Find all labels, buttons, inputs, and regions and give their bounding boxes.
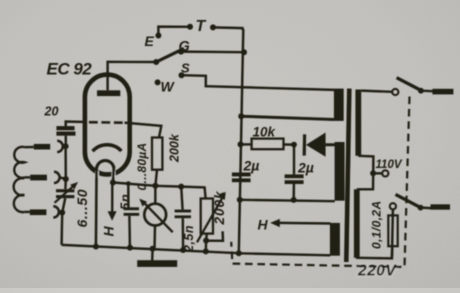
wire tap rail upper: [64, 146, 67, 179]
coil middle tap wire: [25, 176, 31, 178]
wire C-25n top lead: [181, 187, 182, 210]
node bus-pot: [203, 248, 209, 254]
triode anode lead: [108, 62, 155, 90]
meter M1 body: [144, 204, 166, 226]
resistor R1 200k: [152, 138, 162, 170]
fuse F1 body: [388, 215, 397, 246]
transformer winding W4 lower: [354, 189, 360, 257]
capacitor C 20pF: [56, 126, 74, 130]
coil bottom tap plug: [30, 209, 47, 215]
wire grid to R-200k: [125, 123, 162, 138]
node C-25n tap: [178, 184, 184, 190]
node cathode junction: [110, 180, 116, 186]
coil middle tap plug: [30, 175, 47, 181]
node bus-5n: [127, 245, 133, 251]
heater white casing: [95, 171, 99, 178]
wire R1 to node: [155, 170, 157, 186]
heater leg left: [95, 166, 98, 246]
coil bottom tap socket: [53, 206, 59, 217]
switch arm mains upper: [397, 78, 421, 91]
switch arm G: [156, 48, 184, 62]
wire R2 bottom lead: [205, 234, 208, 241]
heater leg right: [113, 166, 114, 182]
transformer core: [346, 89, 349, 262]
triode V1 EC92 envelope: [85, 75, 130, 175]
wire 110V tap lead: [373, 172, 382, 175]
wire T to rail: [213, 27, 243, 30]
node bus-meter: [150, 246, 156, 252]
dashed enclosure: [231, 97, 409, 267]
wire heater feed: [279, 222, 330, 225]
node middle tap: [63, 176, 69, 182]
wire mains top lead: [361, 91, 392, 92]
wire HT rail: [239, 29, 244, 253]
wire C2u-2 top lead: [293, 145, 295, 175]
coil top tap wire: [25, 146, 34, 149]
wire C-5n bottom lead: [128, 216, 131, 248]
node bus-heater: [93, 244, 99, 250]
node rail-10k: [238, 141, 244, 147]
wire E to T: [158, 27, 190, 36]
node meter top: [152, 183, 158, 189]
arrow heater down: [111, 183, 114, 213]
contact S: [179, 72, 185, 78]
node pivot lower: [418, 205, 424, 211]
node diode junction: [291, 142, 297, 148]
wire C-5n top lead: [127, 184, 130, 208]
coil middle tap socket: [54, 172, 60, 183]
wire meter bottom lead: [153, 226, 156, 249]
node bottom tap: [59, 210, 65, 216]
triode anode plate: [97, 90, 120, 96]
wire S to transformer: [182, 75, 335, 90]
contact E: [155, 33, 161, 39]
diode D1 cathode bar: [303, 134, 307, 155]
transformer winding W2 (rectifier): [335, 142, 345, 201]
node R2 bottom: [203, 238, 209, 244]
contact T right: [210, 24, 216, 30]
node top tap: [63, 143, 69, 149]
wire R2 to bus: [205, 241, 208, 252]
node rail-winding: [238, 113, 244, 119]
wire G to rail: [181, 50, 244, 53]
transformer winding W3 (heater): [330, 223, 340, 256]
resistor R3 10k: [252, 139, 284, 150]
node C2u-2 ground: [291, 197, 297, 203]
contact T left: [187, 24, 193, 30]
plug pin lower: [431, 204, 451, 209]
node rail-G: [241, 49, 247, 55]
terminal 110V: [382, 170, 388, 176]
potentiometer R2 200k body: [201, 199, 213, 234]
diode D1: [306, 133, 326, 157]
wire mains bottom lead: [356, 246, 392, 258]
node rail-ground wire: [237, 197, 243, 203]
capacitor C 2,5n: [175, 210, 191, 213]
wire C-var to bottom tap: [62, 198, 65, 212]
coil top tap plug: [34, 144, 50, 150]
wire pivot to pin lower: [421, 206, 432, 209]
plug pin upper: [432, 89, 453, 95]
contact G: [178, 49, 184, 55]
wire ground return: [240, 200, 335, 201]
triode grid (dashed): [89, 121, 126, 124]
wire tap rail to C-var: [64, 179, 67, 189]
node 110V tap: [370, 170, 376, 176]
wire 110V tap step: [357, 156, 374, 190]
triode heater loop: [97, 161, 114, 169]
terminal fuse top: [390, 203, 396, 209]
meter M1 arrow: [143, 202, 173, 233]
capacitor C 2u second: [285, 174, 304, 178]
wire C2u-2 bottom lead: [292, 184, 295, 200]
switch arm mains lower: [396, 194, 421, 207]
node bus-25n: [180, 247, 186, 253]
wire 10k to diode: [284, 143, 295, 146]
transformer winding W4 upper (mains): [355, 90, 361, 156]
wire R2 wiper hook: [206, 231, 223, 241]
coil top tap socket: [57, 141, 63, 152]
node switch pivot: [153, 59, 159, 65]
triode cathode: [93, 145, 122, 151]
coil bottom tap wire: [24, 211, 30, 213]
transformer winding W1 (HT): [334, 89, 344, 121]
contact W: [155, 79, 161, 85]
wire diode to winding: [326, 143, 335, 146]
node pivot upper: [418, 88, 424, 94]
wire bottom tap to ground bus: [60, 213, 63, 245]
wire rail to 10k: [241, 143, 252, 145]
wire ground stub: [151, 249, 154, 261]
wire bottom return: [239, 253, 330, 255]
wire pivot to pin upper: [421, 89, 433, 92]
capacitor C 5n: [124, 207, 139, 210]
node rail-bottom: [236, 250, 242, 256]
ground symbol: [137, 260, 177, 267]
wire C-25n bottom lead: [182, 218, 185, 251]
coil L1 winding: [14, 147, 25, 212]
variable capacitor C 6...50: [56, 189, 74, 192]
wire fuse: [392, 209, 393, 258]
arrow of variable capacitor: [55, 185, 76, 203]
wire grid to C-20: [66, 122, 86, 127]
wire meter top lead: [154, 186, 157, 203]
wire ground bus: [62, 245, 239, 253]
potentiometer R2 arrow: [197, 195, 224, 243]
wire winding1 bottom lead: [241, 116, 334, 119]
wire C-20 to top tap: [65, 136, 67, 147]
terminal mains top: [392, 89, 398, 95]
wire cathode row: [113, 183, 206, 199]
wire W1 top: [333, 89, 335, 91]
capacitor C 2u first: [232, 173, 251, 177]
node C-5n tap: [126, 181, 131, 186]
